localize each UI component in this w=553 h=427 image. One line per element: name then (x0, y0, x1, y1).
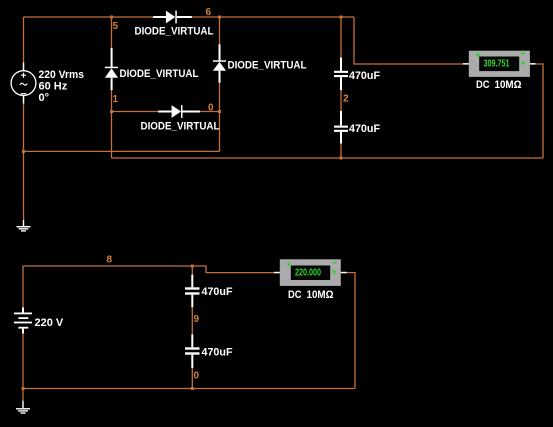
svg-text:0: 0 (194, 371, 200, 382)
wire top rail drop to meter (354, 17, 463, 64)
svg-text:470uF: 470uF (349, 123, 380, 135)
svg-text:470uF: 470uF (202, 286, 233, 298)
svg-text:470uF: 470uF (349, 70, 380, 82)
svg-text:0: 0 (208, 103, 214, 114)
wire cap column top circuit (340, 17, 342, 58)
capacitor C2 (334, 111, 348, 144)
svg-text:309.751: 309.751 (484, 59, 510, 70)
svg-text:10MΩ: 10MΩ (307, 289, 334, 301)
svg-text:9: 9 (194, 314, 200, 325)
svg-text:1: 1 (113, 94, 119, 105)
svg-text:DIODE_VIRTUAL: DIODE_VIRTUAL (228, 59, 307, 71)
capacitor C1 (334, 58, 348, 91)
svg-text:220.000: 220.000 (295, 268, 321, 279)
svg-text:8: 8 (107, 255, 113, 266)
svg-text:DC: DC (476, 79, 490, 91)
diode D3 right vertical (213, 44, 226, 83)
diode D4 bottom horizontal (158, 105, 200, 118)
svg-text:5: 5 (113, 21, 119, 32)
capacitor C4 (185, 334, 200, 368)
wire bottom meter right (347, 273, 356, 389)
svg-text:DIODE_VIRTUAL: DIODE_VIRTUAL (135, 26, 214, 38)
svg-text:2: 2 (343, 93, 349, 104)
multimeter U1 body (463, 51, 536, 77)
node junction dots (110, 16, 113, 19)
wire node1 bottom rail (112, 157, 544, 159)
svg-text:220 Vrms: 220 Vrms (39, 69, 85, 81)
svg-text:6: 6 (206, 7, 212, 18)
multimeter U2 body (274, 259, 347, 286)
wire bottom circuit top rail net 8 (23, 266, 274, 273)
svg-text:DC: DC (288, 289, 302, 301)
capacitor C3 (185, 275, 200, 308)
svg-text:220 V: 220 V (35, 317, 64, 329)
svg-text:0°: 0° (39, 92, 50, 104)
svg-text:60 Hz: 60 Hz (39, 81, 68, 93)
svg-text:470uF: 470uF (202, 346, 233, 358)
wire meter right to corner (536, 64, 543, 158)
wire AC source bottom to ground (23, 104, 25, 221)
wire bottom circuit bottom rail (23, 388, 355, 390)
wire battery bottom to ground (22, 333, 24, 400)
ground bottom circuit (16, 401, 30, 413)
wire top rail net 6/5 (24, 16, 154, 18)
wire battery top lead (22, 266, 24, 308)
diode D2 left vertical (105, 48, 118, 90)
wire node0 rail (24, 150, 220, 152)
svg-text:DIODE_VIRTUAL: DIODE_VIRTUAL (120, 68, 199, 80)
wire AC source top lead (23, 17, 25, 63)
wire right bridge vertical (219, 17, 221, 45)
battery V2 (14, 308, 32, 334)
wire left bridge vertical (111, 17, 113, 49)
AC source V1 (11, 63, 36, 104)
svg-text:DIODE_VIRTUAL: DIODE_VIRTUAL (141, 120, 220, 132)
wire bridge bottom rail (112, 111, 159, 113)
wire bottom cap column (191, 266, 193, 275)
diode D1 top horizontal (153, 11, 192, 24)
svg-text:10MΩ: 10MΩ (495, 79, 522, 91)
ground top circuit (17, 220, 31, 231)
